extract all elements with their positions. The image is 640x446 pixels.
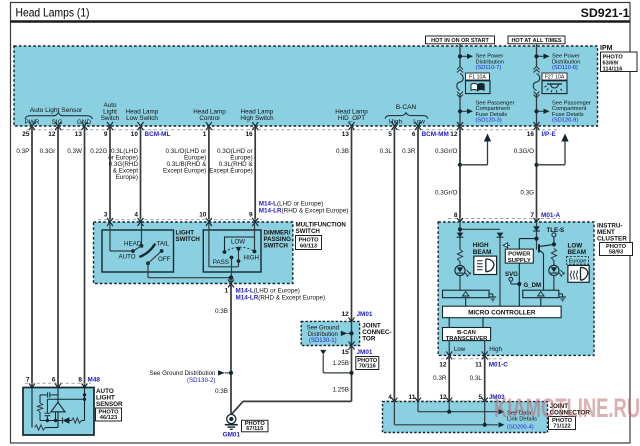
cluster pin 7 (534, 218, 540, 226)
svg-text:Low: Low (454, 346, 466, 353)
ground left bus (489, 293, 493, 295)
cluster pin 11 (482, 351, 488, 359)
JM03 connector row (386, 400, 500, 402)
svg-text:6: 6 (412, 131, 416, 138)
svg-text:PASS: PASS (213, 259, 229, 266)
svg-text:0.3R: 0.3R (402, 148, 416, 155)
wire power supply top (518, 239, 520, 250)
power tag HOT AT ALL TIMES (508, 36, 565, 44)
svg-text:0.3G/O: 0.3G/O (514, 148, 534, 155)
svg-text:AUTO: AUTO (119, 254, 136, 261)
svg-text:BCM-MM: BCM-MM (422, 131, 449, 138)
dimmer arc center contact (237, 247, 241, 251)
svg-text:HEAD: HEAD (124, 240, 142, 247)
dimmer contact LOW (223, 250, 227, 254)
micro controller to transceiver links (448, 318, 450, 328)
svg-text:SENSOR: SENSOR (96, 401, 123, 408)
svg-text:16: 16 (245, 131, 253, 138)
svg-text:3: 3 (104, 212, 108, 219)
bus bar links to micro controller (465, 298, 467, 307)
svg-text:15: 15 (342, 349, 350, 356)
svg-text:7: 7 (530, 212, 534, 219)
multifunction switch pin 3 (107, 218, 113, 226)
wire 0.3R B-CAN Low to JM03 (417, 126, 419, 402)
svg-text:58/93: 58/93 (609, 250, 623, 256)
high beam feed wire (459, 222, 461, 250)
wire 0.3Gr/O to cluster pin 8 (459, 126, 461, 222)
IPM pin 16 at x=255.2 (252, 122, 258, 130)
diode high beam right (497, 233, 504, 238)
high beam icon (474, 256, 497, 274)
svg-text:60/113: 60/113 (300, 244, 317, 250)
IPM photo ref box (601, 52, 638, 72)
svg-text:TOR: TOR (362, 336, 376, 343)
svg-text:Except Europe): Except Europe) (209, 167, 252, 174)
light switch common contact (146, 261, 150, 265)
resistor high beam (457, 250, 462, 262)
svg-text:0.3B: 0.3B (215, 308, 228, 315)
light switch contact HEAD (140, 244, 144, 248)
LED low beam indicator (549, 265, 559, 275)
node low beam collector (552, 242, 556, 246)
svg-text:71/122: 71/122 (553, 424, 570, 430)
svg-text:JM01: JM01 (357, 349, 373, 356)
auto light sensor block M48 (23, 388, 94, 436)
svg-text:PHOTO: PHOTO (298, 237, 319, 243)
transceiver High output (484, 341, 486, 356)
svg-text:TLE-S: TLE-S (547, 227, 565, 234)
dimmer LOW-HIGH link (225, 237, 255, 252)
dimmer contact PASS (230, 256, 234, 260)
wire 1.25B horizontal to GM01 (243, 400, 352, 402)
IPM pin 12 at x=58 (55, 122, 61, 130)
svg-text:4: 4 (388, 394, 392, 401)
transistor low beam (538, 244, 540, 252)
svg-text:F27 10A: F27 10A (545, 74, 565, 80)
svg-text:Head Lamps (1): Head Lamps (1) (16, 6, 90, 20)
svg-text:(SD130-1): (SD130-1) (309, 338, 337, 344)
wire 0.3G/O to cluster pin 7 (536, 126, 538, 222)
svg-text:HOT AT ALL TIMES: HOT AT ALL TIMES (511, 38, 561, 44)
svg-text:12: 12 (342, 311, 350, 318)
multifunction switch pin 9 (252, 218, 258, 226)
node see power distribution SD110-8 (534, 54, 538, 58)
svg-text:12: 12 (439, 394, 447, 401)
IPM pin 13 at x=351.5 (349, 122, 355, 130)
wire 0.3L cluster high (484, 355, 486, 401)
wire 0.3R cluster low (448, 355, 450, 401)
svg-text:11: 11 (409, 394, 416, 401)
svg-text:63/69/: 63/69/ (603, 60, 619, 66)
JM03 joint connector block (383, 402, 548, 433)
svg-text:8: 8 (78, 376, 82, 383)
svg-text:(SD130-2): (SD130-2) (187, 377, 216, 384)
GM01 photo box (242, 420, 269, 432)
svg-text:SWITCH: SWITCH (176, 236, 201, 243)
M48 pin 8 (82, 384, 88, 392)
svg-text:Except Europe): Except Europe) (163, 167, 206, 174)
svg-text:B-CAN: B-CAN (396, 104, 417, 111)
M48 pin 7 (29, 384, 35, 392)
sensor internal: left resistor (39, 395, 41, 403)
JM03 photo box (549, 417, 576, 430)
IPM connector row gray line (26, 129, 560, 131)
JM01 joint connector block (301, 321, 359, 345)
wire 0.3L B-CAN High to JM03 (393, 126, 395, 402)
diode high beam left (457, 233, 464, 238)
svg-text:0.3B: 0.3B (215, 388, 228, 395)
transceiver Low output (448, 341, 450, 356)
dimmer wiper contact (237, 259, 241, 263)
svg-text:High Switch: High Switch (240, 115, 274, 122)
IPM pin 6 at x=418 (415, 122, 421, 130)
light switch contact AUTO (131, 249, 135, 253)
svg-text:4: 4 (134, 212, 138, 219)
diode low beam (533, 226, 540, 231)
svg-text:M01-C: M01-C (489, 362, 509, 369)
dimmer contact HIGH (253, 250, 257, 254)
svg-text:Europe: Europe (569, 258, 587, 264)
svg-text:G_DM: G_DM (524, 282, 542, 289)
svg-text:PWR: PWR (25, 119, 40, 126)
micro controller box (443, 306, 562, 318)
M14 pin 1 (230, 278, 232, 284)
wire 0.3W GND (84, 126, 86, 388)
sensor internal: mid rail (47, 398, 84, 400)
branch arrow up to SD120-9 (534, 163, 538, 167)
M48 connector row (25, 382, 91, 384)
svg-text:Switch: Switch (101, 115, 120, 122)
JM03 pin 4 (391, 398, 397, 406)
node M14 junction (229, 275, 234, 280)
low beam feed wire (536, 222, 538, 250)
IPM pin 12 at x=460 (457, 122, 463, 130)
svg-text:1: 1 (203, 131, 207, 138)
light switch wiring: pin3 to AUTO contact (109, 222, 111, 251)
power supply input arrow (503, 243, 507, 248)
svg-text:9: 9 (249, 212, 253, 219)
JM03 high line to data link (394, 424, 498, 426)
bus bar left (443, 290, 490, 298)
multifunction switch pin 4 (138, 218, 144, 226)
svg-text:25: 25 (22, 131, 30, 138)
IPM pin 13 at x=84.5 (82, 122, 88, 130)
fuse F27 10A (534, 67, 540, 73)
light switch wiring: pin4 to HEAD contact (141, 222, 143, 246)
svg-text:12: 12 (450, 131, 458, 138)
JM01 internal node (351, 321, 353, 345)
svg-text:M01-A: M01-A (541, 212, 561, 219)
svg-text:SWITCH: SWITCH (296, 228, 321, 235)
wire head lamp high switch (254, 126, 256, 222)
svg-text:12: 12 (439, 362, 447, 369)
svg-text:0.3Gr: 0.3Gr (40, 148, 56, 155)
wire fuse F1 branch (459, 46, 461, 67)
svg-text:114/116: 114/116 (603, 67, 623, 73)
svg-text:Auto Light Sensor: Auto Light Sensor (30, 107, 83, 114)
wire power supply bottom to G_DM (518, 263, 520, 306)
svg-text:(SD110-7): (SD110-7) (476, 65, 502, 71)
wire head lamp low switch (140, 126, 142, 222)
svg-text:Control: Control (199, 115, 219, 122)
svg-text:High: High (489, 346, 502, 353)
svg-text:Europe): Europe) (116, 174, 138, 181)
svg-text:GM01: GM01 (223, 432, 241, 439)
svg-text:13: 13 (75, 131, 83, 138)
JM03 internal wires (393, 402, 395, 425)
branch arrow up to SD120-3 (458, 163, 462, 167)
IPM pin 10 at x=140.5 (138, 122, 144, 130)
svg-text:JM01: JM01 (357, 311, 373, 318)
svg-text:HIGH: HIGH (244, 255, 259, 262)
svg-text:46/123: 46/123 (100, 415, 117, 421)
JM01 pin 15 (349, 342, 355, 350)
svg-text:5: 5 (479, 394, 483, 401)
svg-text:Distribution: Distribution (308, 332, 338, 338)
dimmer passing switch box (203, 230, 261, 272)
sensor internal: op-amp (51, 402, 65, 412)
multifunction switch connector gray line (98, 219, 262, 221)
svg-text:(SD120-3): (SD120-3) (476, 118, 502, 124)
cluster pin 12 (446, 351, 452, 359)
svg-text:POWER: POWER (508, 252, 531, 258)
svg-text:16: 16 (527, 131, 535, 138)
dimmer wiring: pin10 to wiper common (208, 222, 210, 267)
svg-text:0.3P: 0.3P (16, 148, 29, 155)
wire light switch output (147, 263, 149, 277)
M01-A connector row (448, 218, 560, 220)
light switch contact TAIL/OFF (160, 249, 164, 253)
svg-text:I/P-E: I/P-E (542, 131, 557, 138)
IPM pin 5 at x=394.4 (391, 122, 397, 130)
svg-text:M48: M48 (88, 376, 101, 383)
svg-text:(SD120-9): (SD120-9) (552, 118, 578, 124)
svg-text:1: 1 (224, 288, 228, 295)
wire 1.25B ground feed (351, 346, 353, 402)
svg-text:0.3L: 0.3L (380, 148, 393, 155)
JM03 pin 5 (482, 398, 488, 406)
fuse F1 10A (457, 67, 463, 73)
wire 0.3Gr SIG (57, 126, 59, 388)
svg-text:11: 11 (475, 362, 482, 369)
svg-text:70/116: 70/116 (359, 364, 376, 370)
fuse F1 icon (book) (466, 81, 491, 94)
ground GM01 (227, 414, 236, 423)
multifunction switch pin 10 (206, 218, 212, 226)
svg-text:OFF: OFF (158, 256, 171, 263)
svg-text:HOT IN ON OR START: HOT IN ON OR START (431, 38, 489, 44)
M48 pin 6 (55, 384, 61, 392)
svg-text:SUPPLY: SUPPLY (508, 258, 531, 264)
svg-text:BEAM: BEAM (568, 249, 587, 256)
svg-text:9: 9 (104, 131, 108, 138)
IPM pin 9 at x=110 (107, 122, 113, 130)
svg-text:0.3L: 0.3L (470, 375, 483, 382)
sensor internal: GND rail (84, 388, 86, 421)
IPM pin 16 at x=536.5 (534, 122, 540, 130)
svg-text:0.3R: 0.3R (433, 375, 447, 382)
node see power distribution SD110-7 (458, 54, 462, 58)
wire from HOT IN ON OR START into IPM (459, 44, 461, 47)
dimmer position arc (225, 247, 255, 252)
svg-text:7: 7 (26, 376, 30, 383)
svg-text:MICRO CONTROLLER: MICRO CONTROLLER (468, 310, 536, 317)
instrument cluster block (438, 222, 594, 355)
svg-text:SVG: SVG (505, 271, 518, 278)
svg-text:TRANSCEIVER: TRANSCEIVER (446, 336, 488, 342)
bus bar right (523, 290, 559, 298)
wire 0.3B to ground (230, 284, 232, 415)
dimmer wiring: pin9 to HIGH contact (254, 222, 256, 252)
JM03 pin 12 (446, 398, 452, 406)
svg-text:12: 12 (48, 131, 56, 138)
svg-text:LOW: LOW (231, 238, 245, 245)
power supply box (505, 249, 533, 263)
JM01 photo box (356, 357, 379, 370)
svg-text:SD921-1: SD921-1 (581, 6, 630, 20)
svg-text:KIAMOTLINE.RU: KIAMOTLINE.RU (494, 393, 640, 423)
cluster photo box (600, 243, 633, 256)
svg-text:0.3B: 0.3B (336, 148, 349, 155)
ground right bus (559, 293, 563, 295)
svg-text:13: 13 (342, 131, 350, 138)
svg-text:6: 6 (52, 376, 56, 383)
JM01 branch arrow down (320, 350, 326, 355)
svg-text:0.3Gr/O: 0.3Gr/O (435, 148, 457, 155)
JM03 low line to data link (418, 411, 498, 413)
svg-text:CLUSTER: CLUSTER (597, 236, 627, 243)
svg-text:8: 8 (454, 212, 458, 219)
fuse F27 icon (lamp) (542, 81, 567, 94)
svg-text:BCM-ML: BCM-ML (145, 131, 171, 138)
svg-text:1.25B: 1.25B (333, 387, 349, 394)
Europe dashed tag (567, 257, 589, 265)
JM03 pin 11 (415, 398, 421, 406)
low beam icon (568, 265, 589, 282)
svg-text:TAIL: TAIL (157, 240, 170, 247)
node see passenger fuse details SD120-9 (534, 109, 538, 113)
light switch wiper arc (139, 244, 155, 257)
wire 0.3P PWR (31, 126, 33, 388)
svg-text:0.3W: 0.3W (67, 148, 82, 155)
svg-text:M14-LR(RHD & Except Europe): M14-LR(RHD & Except Europe) (236, 294, 326, 301)
node see passenger fuse details SD120-3 (458, 109, 462, 113)
svg-text:PHOTO: PHOTO (603, 54, 624, 60)
svg-text:See Ground: See Ground (307, 326, 339, 332)
svg-text:10: 10 (199, 212, 207, 219)
wire fuse F27 branch (536, 46, 538, 67)
LED high beam indicator (455, 265, 465, 275)
svg-text:F1 10A: F1 10A (469, 74, 486, 80)
resistor low beam (551, 249, 556, 261)
wire from HOT AT ALL TIMES into IPM (536, 44, 538, 47)
svg-text:0.3G: 0.3G (520, 190, 534, 197)
IPM pin 1 at x=208.9 (206, 122, 212, 130)
svg-text:BEAM: BEAM (473, 249, 492, 256)
svg-text:(SD110-8): (SD110-8) (552, 65, 578, 71)
cluster pin 8 (457, 218, 463, 226)
IPM block (BCM) (14, 46, 598, 126)
svg-text:M14-LR(RHD & Except Europe): M14-LR(RHD & Except Europe) (259, 207, 349, 214)
IPM pin 25 at x=32 (29, 122, 35, 130)
multifunction switch photo box (296, 236, 322, 250)
B-CAN transceiver box (443, 328, 491, 341)
multifunction switch block (94, 222, 293, 284)
svg-text:(SD200-4): (SD200-4) (507, 425, 534, 431)
wire 0.22G auto light switch (109, 126, 111, 222)
M48 photo box (96, 408, 122, 421)
power tag HOT IN ON OR START (426, 36, 495, 44)
svg-text:10: 10 (131, 131, 139, 138)
node G_DM (517, 282, 521, 286)
svg-text:5: 5 (388, 131, 392, 138)
svg-text:HID_OPT: HID_OPT (338, 115, 365, 122)
node TLE-S base (534, 237, 538, 241)
svg-text:Low Switch: Low Switch (126, 115, 158, 122)
svg-text:0.22G: 0.22G (90, 148, 107, 155)
sensor internal: top feedback with capacitor (40, 394, 47, 396)
svg-text:67/115: 67/115 (246, 426, 263, 432)
JM01 pin 12 (349, 317, 355, 325)
svg-text:IPM: IPM (600, 45, 613, 52)
svg-text:1.25B: 1.25B (333, 360, 349, 367)
sensor internal: PWR rail (31, 388, 33, 428)
wire 0.3B HID_OPT to JM01 (351, 126, 353, 321)
wire head lamp control (208, 126, 210, 222)
sensor internal: bottom rail with diode and resistor (40, 420, 63, 422)
svg-text:SWITCH: SWITCH (264, 242, 289, 249)
svg-text:0.3Gr/O: 0.3Gr/O (435, 190, 457, 197)
light switch box (102, 230, 174, 272)
M01-C connector row (441, 358, 503, 360)
